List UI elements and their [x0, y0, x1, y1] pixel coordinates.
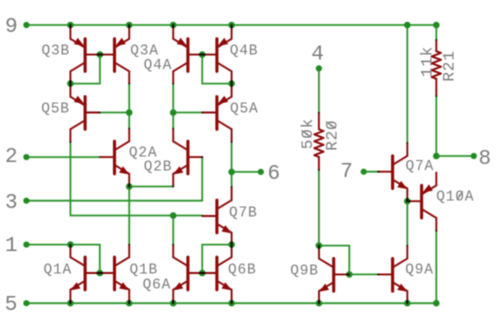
wire top supply rail from pin 9	[26, 24, 436, 26]
emitter arrow of Q4B	[218, 38, 228, 46]
wire Q5B collector to Q7B base (node H)	[70, 142, 202, 216]
junction Q1A/Q1B bases	[97, 270, 104, 277]
wire pin 7 to Q7A base	[364, 171, 379, 173]
junction node A at Q3B collector	[67, 80, 74, 87]
junction top rail / Q4B emitter	[228, 22, 235, 29]
junction node D	[170, 109, 177, 116]
wire Q4 base to Q4B collector (node B)	[202, 55, 231, 84]
pin 9 terminal dot	[23, 22, 29, 28]
junction Q6A/Q6B bases	[199, 270, 206, 277]
svg-text:Q7A: Q7A	[406, 159, 435, 175]
wire Q3A collector to Q5B base and Q2A collector (node C)	[99, 84, 129, 129]
wire node F to pin 6	[232, 171, 261, 173]
junction top rail / Q3B emitter	[67, 22, 74, 29]
svg-text:Q5B: Q5B	[41, 101, 70, 117]
svg-text:Q3B: Q3B	[42, 43, 71, 59]
transistor Q6B (NPN)	[202, 245, 231, 303]
emitter arrow of Q2B	[173, 166, 183, 174]
wire Q3 base to Q3B collector (node A)	[70, 55, 100, 84]
junction node B at Q4B collector	[228, 80, 235, 87]
transistor Q9A (NPN)	[378, 246, 407, 303]
emitter arrow of Q2A	[119, 166, 129, 174]
junction node E	[126, 183, 133, 190]
pin 6 terminal dot	[258, 169, 264, 175]
wire Q7A emitter to Q9A collector	[406, 201, 408, 246]
junction pin 1 wire / Q1A collector	[67, 241, 74, 248]
emitter arrow of Q6B	[222, 282, 232, 290]
wire node H down to Q6A collector	[172, 216, 174, 245]
junction node G	[316, 242, 323, 249]
junction node F at pin 6 branch	[228, 169, 235, 176]
svg-text:R21: R21	[440, 50, 458, 81]
junction bottom rail / Q1A emitter	[67, 300, 74, 307]
emitter arrow of Q1A	[70, 282, 80, 290]
resistor R20 (50k)	[314, 113, 323, 170]
junction top rail / Q4A emitter	[170, 22, 177, 29]
svg-text:Q2B: Q2B	[144, 159, 173, 175]
svg-text:5: 5	[5, 294, 18, 317]
svg-text:6: 6	[268, 163, 281, 186]
svg-text:Q4A: Q4A	[144, 58, 173, 74]
svg-text:Q6B: Q6B	[228, 262, 257, 278]
emitter arrow of Q5B	[74, 96, 84, 104]
pin 1 terminal dot	[23, 242, 29, 248]
transistor Q6A (NPN)	[173, 245, 202, 304]
svg-text:2: 2	[5, 146, 18, 169]
svg-text:Q6A: Q6A	[143, 277, 172, 293]
junction top rail / Q7A collector branch	[404, 22, 411, 29]
emitter arrow of Q1B	[119, 282, 129, 290]
svg-text:8: 8	[479, 148, 492, 171]
junction Q7A emitter / Q10A base	[404, 198, 411, 205]
wire top rail to R21	[435, 25, 437, 40]
junction bottom rail / Q9B emitter	[316, 300, 323, 307]
junction node B	[199, 51, 206, 58]
svg-text:Q1B: Q1B	[130, 262, 159, 278]
wire top rail to Q7A collector	[406, 25, 408, 143]
transistor Q5A (PNP)	[202, 84, 231, 142]
junction bottom rail / Q1B emitter	[126, 300, 133, 307]
wire R20 to Q9B collector (node G)	[318, 170, 320, 246]
label Q10A	[436, 190, 474, 206]
emitter arrow of Q7B	[222, 225, 232, 233]
junction node A	[97, 51, 104, 58]
wire pin 2 to Q2A base	[26, 156, 99, 158]
transistor Q5B (PNP)	[70, 84, 99, 142]
emitter arrow of Q9B	[319, 284, 329, 292]
transistor Q7A (NPN)	[378, 143, 407, 201]
svg-text:Q9B: Q9B	[290, 263, 319, 279]
wire bottom supply rail from pin 5	[26, 302, 436, 304]
svg-text:11k: 11k	[418, 46, 436, 77]
junction Q9A/Q9B bases	[346, 271, 353, 278]
junction bottom rail / Q9A emitter	[404, 300, 411, 307]
wire Q6B collector to Q6A/Q6B bases	[202, 245, 231, 273]
pin 5 terminal dot	[23, 300, 29, 306]
svg-text:Q4B: Q4B	[230, 43, 259, 59]
pin 7 terminal dot	[361, 169, 367, 175]
transistor Q2A (NPN)	[100, 129, 129, 187]
name label R20	[323, 120, 341, 151]
emitter arrow of Q5A	[218, 96, 228, 104]
transistor Q3B (PNP)	[70, 25, 99, 84]
value label 50k of R20	[299, 118, 317, 149]
resistor R21 (11k)	[432, 40, 441, 96]
emitter arrow of Q7A	[397, 181, 407, 189]
wire pin 8	[436, 155, 474, 157]
transistor Q3A (PNP)	[100, 25, 129, 84]
svg-text:Q1A: Q1A	[44, 262, 73, 278]
emitter arrow of Q10A	[423, 184, 433, 192]
wire pin 1 to Q1A/Q1B bases	[26, 245, 99, 273]
emitter arrow of Q3A	[115, 38, 125, 46]
junction Q6B collector diode tie	[228, 241, 235, 248]
transistor Q9B (NPN)	[319, 246, 348, 304]
junction node C	[126, 109, 133, 116]
wire R21 to pin 8 node	[435, 96, 437, 156]
svg-text:Q5A: Q5A	[230, 101, 259, 117]
wire Q4A collector to Q5A base and Q2B collector (node D)	[173, 84, 202, 129]
emitter arrow of Q9A	[397, 284, 407, 292]
svg-text:9: 9	[5, 16, 18, 39]
junction node H	[170, 212, 177, 219]
svg-text:7: 7	[340, 161, 353, 184]
svg-text:R20: R20	[323, 120, 341, 151]
pin 3 terminal dot	[23, 198, 29, 204]
svg-text:50k: 50k	[299, 118, 317, 149]
transistor Q4A (PNP)	[173, 25, 202, 84]
transistor Q9B base pin extension to junction	[347, 273, 349, 275]
pin 8 terminal dot	[471, 153, 477, 159]
wire Q5A collector to Q7B collector (node F)	[231, 142, 233, 187]
junction bottom rail / Q6B emitter	[228, 300, 235, 307]
wire node G to Q9A/Q9B bases	[319, 246, 379, 275]
svg-text:4: 4	[311, 44, 324, 67]
wire Q2A/Q2B emitters to Q1B collector (node E)	[129, 187, 173, 245]
transistor Q7B (NPN)	[202, 187, 231, 245]
transistor Q1B (NPN)	[100, 245, 129, 304]
emitter arrow of Q3B	[74, 38, 84, 46]
junction top rail / R21 branch	[433, 22, 440, 29]
emitter arrow of Q6A	[173, 282, 183, 290]
svg-text:Q9A: Q9A	[405, 262, 434, 278]
transistor Q10A (PNP)	[407, 173, 436, 231]
wire pin 4 to R20	[318, 68, 320, 112]
pin 2 terminal dot	[23, 154, 29, 160]
svg-text:Q7B: Q7B	[229, 206, 258, 222]
emitter arrow of Q4A	[177, 38, 187, 46]
svg-text:1: 1	[5, 235, 18, 258]
wire Q10A collector to bottom rail	[435, 231, 437, 304]
transistor Q1A (NPN)	[70, 245, 99, 304]
svg-text:Q10A: Q10A	[436, 190, 474, 206]
pin 4 terminal dot	[316, 65, 322, 71]
wire pin 3 to Q2B base	[26, 157, 202, 201]
junction bottom rail / Q6A emitter	[170, 300, 177, 307]
transistor Q4B (PNP)	[202, 25, 231, 84]
junction R21 / pin 8 / Q10A emitter	[433, 153, 440, 160]
junction top rail / Q3A emitter	[126, 22, 133, 29]
transistor Q2B (NPN)	[173, 129, 202, 187]
junction bottom rail / Q10A collector emitter	[433, 300, 440, 307]
svg-text:3: 3	[5, 192, 18, 215]
